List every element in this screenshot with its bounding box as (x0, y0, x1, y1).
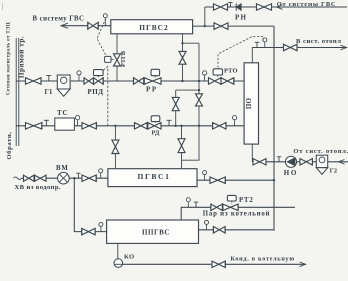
wire right riser x274 (273, 26, 275, 231)
wire condensate line (123, 262, 306, 267)
node vent tick heating return (277, 157, 281, 162)
node vent tick return (44, 120, 49, 126)
valve GVS out (88, 22, 98, 30)
node label Kond v kotelnuyu (231, 256, 295, 263)
regulator RD actuator (151, 116, 160, 123)
node junction return x115 (114, 125, 116, 127)
valve RTGV vertical (114, 54, 121, 66)
wire cold water inlet (14, 177, 108, 180)
node junction return x175 (175, 125, 177, 127)
regulator RR actuator (151, 69, 160, 78)
svg-text:РТО: РТО (224, 68, 238, 75)
valve vertical x181 (178, 139, 185, 153)
svg-text:От сист. отопл.: От сист. отопл. (293, 148, 348, 155)
wire PO bottom stub (251, 144, 253, 162)
manometer before PGVS1 (99, 169, 103, 178)
valve vertical x182 (179, 51, 186, 64)
heat exchanger PO (244, 63, 258, 144)
manometer steam line (186, 198, 190, 208)
node vent tick supply (46, 76, 51, 82)
node label RTO (224, 68, 238, 75)
svg-text:Сетевая магистраль от ТЭЦ: Сетевая магистраль от ТЭЦ (7, 22, 12, 95)
wire scan artifact top-left (2, 3, 4, 10)
valve heating return right (300, 158, 312, 165)
mud filter G1 (57, 75, 70, 96)
svg-text:Г2: Г2 (330, 168, 338, 175)
pump NO (285, 156, 296, 167)
node label RPD (88, 88, 104, 96)
svg-text:РД: РД (152, 130, 161, 137)
water meter VM (58, 172, 70, 184)
svg-text:НО: НО (284, 169, 298, 177)
wire heating supply line (252, 45, 347, 50)
node left margin label Pryamoy tr. (18, 36, 26, 78)
valve steam RT2 (223, 204, 238, 211)
node label XV iz vodopr (15, 184, 61, 191)
wire PGVS2 bottom to supply x117 (116, 34, 118, 81)
svg-text:ПО: ПО (245, 98, 253, 110)
valve return after TS (82, 122, 96, 129)
svg-text:РПД: РПД (88, 88, 104, 96)
valve RPD pair (84, 77, 103, 84)
svg-text:РН: РН (235, 13, 247, 21)
valve RR pair (134, 77, 162, 84)
node vent tick return x169 (167, 120, 172, 126)
wire vertical x175 bypass (175, 90, 177, 126)
heat exchanger PGVS2 (111, 20, 193, 34)
node label Ot sist otopl (293, 148, 348, 155)
valve PGVS1 outlet (210, 177, 225, 184)
node vent tick heating supply (255, 42, 260, 47)
valve PPGVS right (213, 226, 225, 233)
valve RD pair (135, 122, 162, 129)
valve GVS return (257, 3, 272, 10)
regulator RPD actuator (94, 70, 104, 78)
node label PGVS2 (139, 23, 168, 32)
heat exchanger PPGVS (107, 220, 199, 243)
wire PO top stub (251, 48, 253, 63)
svg-text:КО: КО (124, 253, 135, 260)
node label TS (57, 109, 68, 117)
thermometer before RTO (203, 71, 207, 81)
heat exchanger PGVS1 (108, 169, 197, 187)
svg-text:Г1: Г1 (45, 89, 54, 96)
node label RTGV (120, 51, 127, 67)
node label VM (56, 165, 69, 172)
mud filter G2 (316, 155, 327, 174)
node vent tick RN line (228, 2, 232, 7)
steam trap KO (114, 259, 123, 268)
thermometer on return line (76, 116, 80, 126)
wire mixing down to PGVS1 (180, 125, 199, 169)
node left margin label Obratn. (6, 131, 13, 159)
node label G2 (330, 168, 338, 175)
heat meter TS block (55, 118, 75, 130)
valve supply inlet (26, 77, 42, 84)
node label NO (284, 169, 298, 177)
thermometer GVS out (103, 14, 107, 26)
wire vertical x199 mixing (198, 43, 200, 160)
valve vertical x175 (172, 97, 179, 110)
node label RT2 (239, 197, 254, 204)
wire PGVS2 bottom to supply x182 (182, 34, 184, 81)
svg-text:ПГВС2: ПГВС2 (139, 23, 168, 32)
regulator RTO actuator (213, 69, 222, 78)
thermometer heating supply (263, 38, 267, 48)
svg-text:РТ2: РТ2 (239, 197, 254, 204)
regulator RTGV actuator (105, 56, 114, 62)
node label V sistemu GVS (33, 15, 85, 22)
node left margin label Setevaya magistral ot TEC (7, 22, 12, 95)
valve PPGVS left (82, 228, 95, 235)
wire heating return line (252, 160, 348, 165)
valve cold water 3 (82, 175, 96, 182)
svg-text:От системы ГВС: От системы ГВС (277, 1, 336, 8)
node junction supply x183 (181, 80, 183, 82)
node label PGVS1 (137, 172, 170, 181)
svg-text:ВМ: ВМ (56, 165, 69, 172)
regulator RT2 actuator (227, 195, 236, 204)
node label PPGVS (142, 228, 170, 236)
valve vertical x115 (112, 140, 119, 153)
wire network mains risers from CHP (16, 38, 19, 146)
node vent tick steam (194, 202, 198, 207)
valve steam 1 (211, 204, 223, 211)
svg-text:Прямой тр.: Прямой тр. (18, 36, 26, 78)
node junction return x199 (198, 125, 200, 127)
check valve RN (236, 3, 241, 10)
wire steam line (181, 207, 295, 220)
node label RN (235, 13, 247, 21)
wire cold water drop to PPGVS (73, 177, 106, 232)
manometer PPGVS left (99, 222, 103, 231)
node label RD (152, 130, 161, 137)
thermometer on supply line (77, 71, 81, 81)
thermometer PGVS1 outlet (203, 171, 207, 181)
valve cold water 1 (24, 175, 35, 182)
wire jumper y43 (181, 42, 199, 44)
wire PGVS2 outlet rail (193, 25, 274, 27)
wire jumper y90 (176, 89, 201, 91)
svg-text:ТС: ТС (57, 109, 68, 117)
svg-text:Обратн,: Обратн, (6, 131, 13, 159)
valve rail A (214, 22, 228, 29)
svg-text:ПГВС1: ПГВС1 (137, 172, 170, 181)
svg-text:Пар из котельной: Пар из котельной (203, 211, 270, 218)
node label PO (245, 98, 253, 110)
valve vertical x199 (196, 94, 203, 106)
node label Par iz kotelnoy (203, 211, 270, 218)
valve return inlet (26, 122, 42, 129)
svg-text:РТГВ: РТГВ (120, 51, 127, 67)
svg-text:В систему ГВС: В систему ГВС (33, 15, 85, 22)
wire PGVS1 outlet (197, 179, 275, 181)
node label Ot sistemy GVS (277, 1, 336, 8)
wire GVS return drop x205 (204, 7, 206, 27)
svg-text:Конд. в котельную: Конд. в котельную (231, 256, 295, 263)
node junction cold water tick (76, 173, 80, 178)
wire GVS supply out (61, 23, 111, 28)
wire return main y126 (16, 125, 244, 127)
valve heating supply (284, 44, 298, 51)
valve cold water 2 (35, 175, 46, 182)
wire supply main y81 (16, 80, 244, 82)
valve RN line left (214, 3, 228, 10)
valve RTO pair (209, 77, 234, 84)
thermometer PO return (233, 116, 237, 126)
svg-text:ХВ из водопр.: ХВ из водопр. (15, 184, 61, 191)
thermometer PPGVS right (205, 220, 209, 229)
node label KO (124, 253, 135, 260)
node label G1 (45, 89, 54, 96)
svg-text:РР: РР (146, 86, 158, 94)
wire return to PGVS1 top x115 (114, 126, 116, 169)
wire GVS return top (205, 5, 347, 10)
svg-text:ППГВС: ППГВС (142, 228, 170, 236)
svg-text:В сист. отопл: В сист. отопл (296, 38, 341, 45)
wire RPD impulse line (103, 67, 108, 126)
node label V sist otopl (296, 38, 341, 45)
valve before PO return (213, 122, 226, 129)
wire riser bottom corner (199, 229, 275, 231)
valve heating return left (253, 158, 266, 165)
wire RTO impulse line (218, 37, 263, 68)
node label RR (146, 86, 158, 94)
wire RTGV impulse line (97, 19, 107, 57)
valve condensate (212, 261, 225, 268)
node junction supply x199 (198, 80, 200, 82)
wire PPGVS bottom to KO (117, 243, 119, 258)
